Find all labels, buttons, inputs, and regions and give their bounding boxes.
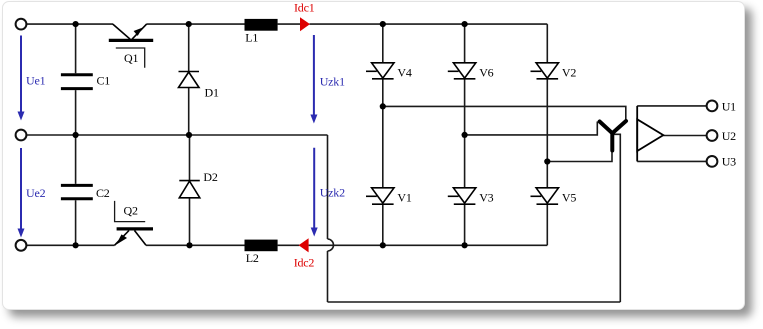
wire bridge column V4/V1 xyxy=(382,24,384,245)
current arrow Idc1 xyxy=(300,17,310,31)
transistor Q2 xyxy=(115,229,154,245)
thyristor V6 xyxy=(448,63,476,79)
node row A / D1 xyxy=(186,21,192,27)
wire bridge column V2/V5 xyxy=(546,24,548,245)
node row C / D2 xyxy=(186,242,192,248)
svg-text:C1: C1 xyxy=(97,74,111,88)
svg-text:Idc1: Idc1 xyxy=(294,1,315,15)
wire D2 branch xyxy=(189,135,191,245)
inductor L1 xyxy=(245,19,278,31)
svg-text:Q1: Q1 xyxy=(124,51,138,65)
svg-text:V5: V5 xyxy=(562,191,576,205)
node row A / C1 xyxy=(73,21,79,27)
node row C / C2 xyxy=(73,242,79,248)
svg-text:Uzk2: Uzk2 xyxy=(320,186,345,200)
motor wye winding symbol xyxy=(600,121,626,151)
diode D1 xyxy=(179,72,200,88)
capacitor C1 xyxy=(61,75,93,89)
wire phase bus 2 xyxy=(465,122,598,135)
thyristor V5 xyxy=(531,188,559,204)
wire neutral link lower xyxy=(327,251,329,302)
node row B / C-link xyxy=(73,132,79,138)
svg-text:V2: V2 xyxy=(562,66,576,80)
svg-text:Uzk1: Uzk1 xyxy=(320,74,345,88)
wire bridge column V6/V3 xyxy=(464,24,466,245)
motor delta winding symbol xyxy=(637,106,663,161)
svg-text:V6: V6 xyxy=(479,66,493,80)
node row C / V3 xyxy=(462,242,468,248)
wire bottom routing xyxy=(328,301,621,303)
svg-text:Idc2: Idc2 xyxy=(294,256,315,270)
wire neutral link from row B down xyxy=(327,135,329,239)
wire phase bus 1 xyxy=(383,106,626,121)
svg-text:D2: D2 xyxy=(203,170,217,184)
wire delta to U1 xyxy=(637,105,706,107)
node row C / V1 xyxy=(380,242,386,248)
current arrow Idc2 xyxy=(299,238,309,252)
svg-text:Ue1: Ue1 xyxy=(26,74,46,88)
wire D1 branch xyxy=(188,24,190,135)
node row A / V6 xyxy=(462,21,468,27)
wire delta to U2 xyxy=(663,135,706,137)
terminal output U3 xyxy=(707,156,718,167)
svg-text:V1: V1 xyxy=(397,191,411,205)
svg-text:L1: L1 xyxy=(245,31,258,45)
svg-text:V3: V3 xyxy=(479,191,493,205)
diode D2 xyxy=(179,181,200,198)
terminal input mid-left xyxy=(16,130,27,141)
terminal input bottom-left xyxy=(16,240,27,251)
terminal output U1 xyxy=(707,101,718,112)
svg-text:L2: L2 xyxy=(246,251,259,265)
wire row B middle bus xyxy=(27,134,328,136)
terminal input top-left xyxy=(16,19,27,30)
svg-text:U1: U1 xyxy=(722,99,736,113)
svg-text:Q2: Q2 xyxy=(124,204,138,218)
node row A / V4 xyxy=(380,21,386,27)
thyristor V1 xyxy=(366,188,394,204)
label Q1 callout xyxy=(116,48,145,68)
svg-text:C2: C2 xyxy=(96,186,110,200)
wire neutral riser to Y center xyxy=(613,134,621,302)
label Q2 callout xyxy=(115,201,146,222)
voltage arrow Ue2 xyxy=(18,148,25,238)
thyristor V2 xyxy=(531,63,559,79)
inductor L2 xyxy=(245,240,278,252)
wire hop over row C xyxy=(328,239,334,251)
thyristor V4 xyxy=(366,63,394,79)
wire phase bus 3 xyxy=(547,151,612,162)
voltage arrow Uzk2 xyxy=(311,148,318,237)
svg-text:V4: V4 xyxy=(397,66,411,80)
wire C1 branch xyxy=(75,24,77,135)
wire row C bottom bus xyxy=(27,244,548,246)
thyristor V3 xyxy=(448,188,476,204)
svg-text:Ue2: Ue2 xyxy=(26,186,46,200)
terminal output U2 xyxy=(707,130,718,141)
svg-text:U2: U2 xyxy=(722,129,736,143)
voltage arrow Uzk1 xyxy=(310,35,317,124)
node bus1 xyxy=(380,103,386,109)
node row B / D-link xyxy=(186,132,192,138)
node bus3 xyxy=(544,158,550,164)
svg-text:U3: U3 xyxy=(722,155,736,169)
voltage arrow Ue1 xyxy=(18,36,25,121)
svg-text:D1: D1 xyxy=(205,85,219,99)
capacitor C2 xyxy=(61,185,93,198)
wire C2 branch xyxy=(75,135,77,245)
node bus2 xyxy=(462,132,468,138)
wire row A top bus xyxy=(27,23,548,25)
wire delta to U3 xyxy=(637,160,706,162)
transistor Q1 xyxy=(109,24,153,40)
